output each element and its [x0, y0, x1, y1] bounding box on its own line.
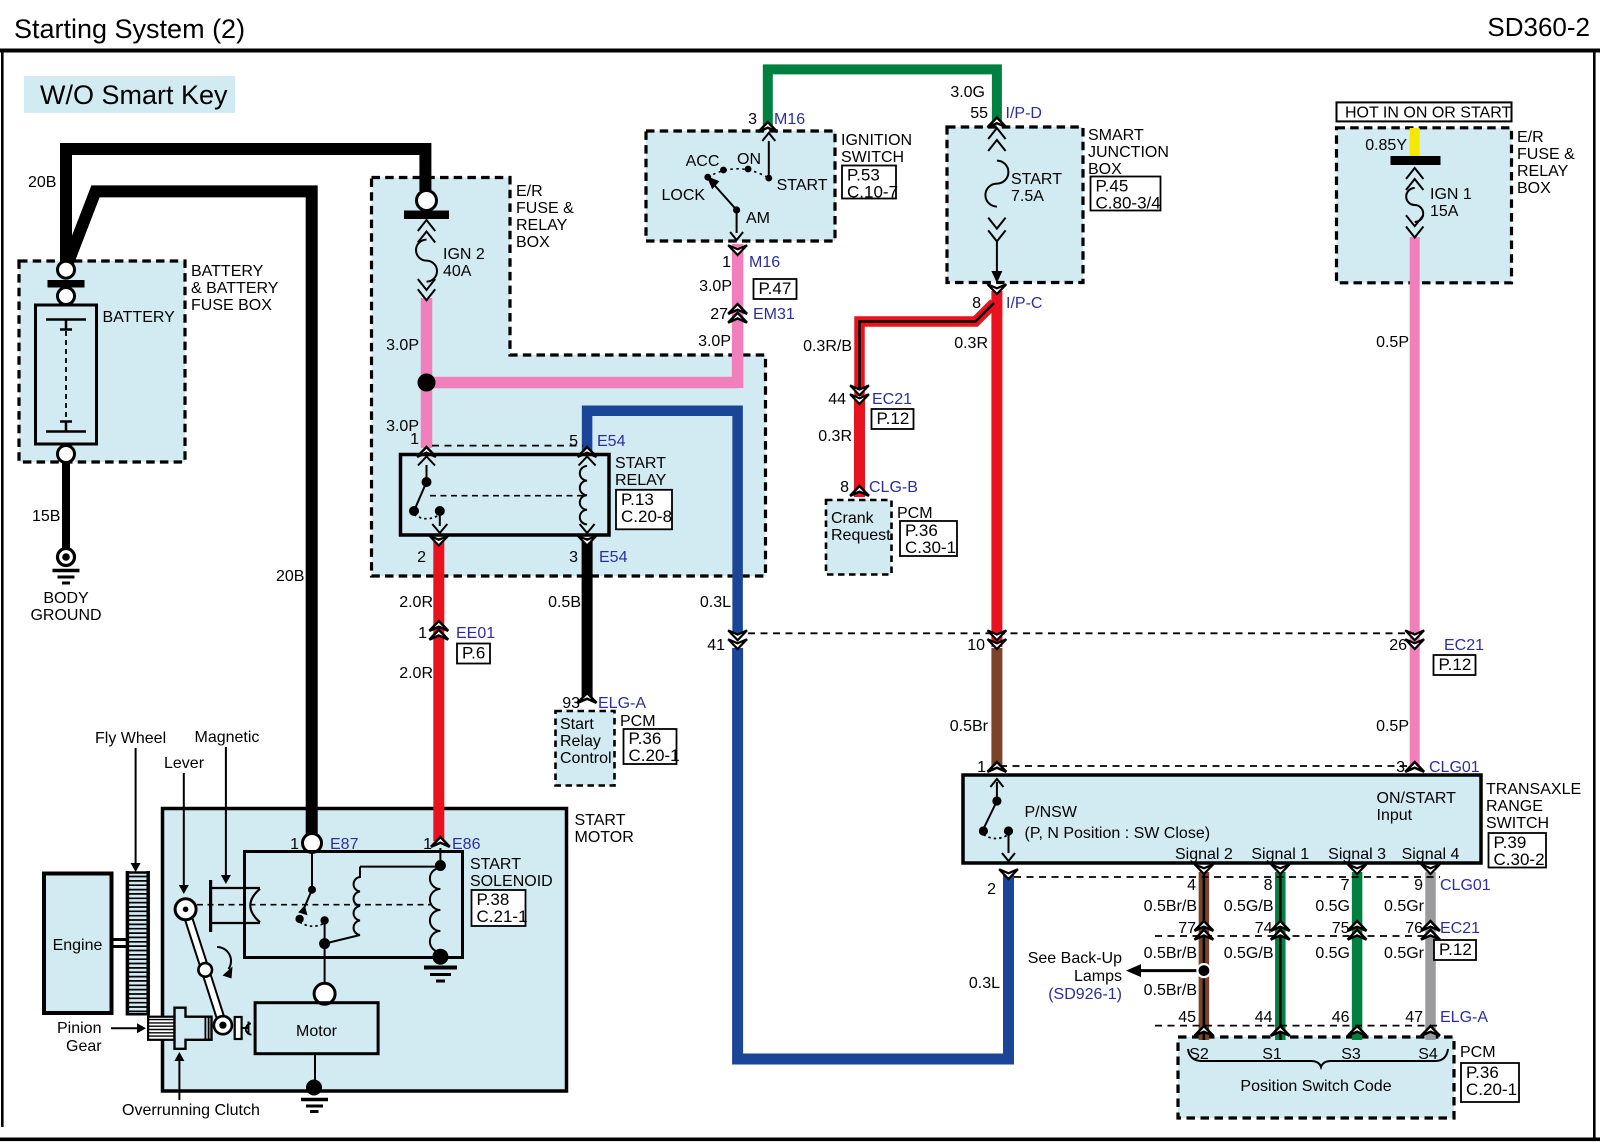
motor box: [255, 1003, 378, 1054]
BATTERY text: [103, 309, 176, 326]
svg-text:8: 8: [1264, 877, 1273, 894]
ignition contact START: [765, 175, 772, 182]
EC21 refbox b: [1434, 655, 1476, 675]
start motor box: [163, 809, 567, 1092]
svg-text:1: 1: [722, 254, 731, 271]
svg-text:2: 2: [417, 549, 426, 566]
svg-text:45: 45: [1178, 1009, 1196, 1026]
label 0.3L b: [969, 975, 1000, 992]
ignition switch detent arc: [708, 169, 769, 178]
ignition contact AM: [733, 206, 740, 213]
Position Switch Code label: [1240, 1078, 1391, 1095]
svg-text:SMART: SMART: [1088, 127, 1144, 144]
svg-text:SD360-2: SD360-2: [1487, 12, 1590, 42]
svg-text:RELAY: RELAY: [1517, 163, 1569, 180]
battery terminal bar: [48, 280, 85, 288]
pin 3 E54 label: [569, 549, 627, 566]
svg-text:Pinion: Pinion: [57, 1020, 101, 1037]
svg-text:SOLENOID: SOLENOID: [470, 873, 553, 890]
start relay control PCM box: [556, 711, 615, 786]
fuse START 7.5A label: [1011, 171, 1062, 205]
svg-text:Request: Request: [831, 527, 891, 544]
wire 0.5G signal 3: [1352, 872, 1363, 1040]
svg-text:3.0P: 3.0P: [698, 333, 731, 350]
svg-text:Crank: Crank: [831, 510, 875, 527]
connector chevron relay pin1: [417, 447, 436, 457]
svg-text:0.5Br/B: 0.5Br/B: [1144, 982, 1197, 999]
pin 5 E54 label: [569, 433, 625, 450]
svg-text:SWITCH: SWITCH: [841, 149, 904, 166]
wire 3.0P from ignition switch M16: [732, 244, 744, 388]
wire 0.3R/B branch: [860, 303, 995, 396]
E/R fuse relay box label: [516, 183, 574, 251]
label 20B top: [28, 174, 56, 191]
svg-text:PCM: PCM: [897, 505, 933, 522]
svg-text:Position Switch Code: Position Switch Code: [1240, 1078, 1391, 1095]
svg-text:BOX: BOX: [1088, 161, 1122, 178]
label 0.5Br/B row3: [1144, 982, 1197, 999]
svg-text:0.5Br: 0.5Br: [950, 718, 989, 735]
svg-text:M16: M16: [774, 111, 805, 128]
Overrunning Clutch label+arrow: [122, 1052, 260, 1119]
start relay control text: [560, 716, 612, 767]
svg-text:3.0G: 3.0G: [950, 84, 985, 101]
svg-text:Input: Input: [1377, 807, 1413, 824]
START MOTOR label: [575, 812, 634, 846]
svg-text:0.3R: 0.3R: [954, 335, 988, 352]
svg-text:2.0R: 2.0R: [399, 665, 433, 682]
svg-text:0.85Y: 0.85Y: [1365, 137, 1407, 154]
EC21 refbox c: [1434, 940, 1476, 960]
svg-text:0.3R/B: 0.3R/B: [803, 338, 852, 355]
connector I/P-D 55: [970, 105, 1042, 127]
W/O Smart Key label: [24, 76, 235, 113]
svg-text:P.12: P.12: [877, 409, 910, 428]
svg-text:& BATTERY: & BATTERY: [191, 280, 279, 297]
E/R fuse & relay box (left) outline: [372, 178, 766, 577]
see back-up lamps label: [1028, 950, 1122, 1003]
fly wheel gear: [127, 871, 148, 1016]
svg-text:27: 27: [710, 306, 728, 323]
svg-text:46: 46: [1332, 1009, 1350, 1026]
BODY GROUND text: [30, 590, 101, 624]
connector EC21 75: [1332, 920, 1367, 940]
wire 20B battery to E/R fuse box: [66, 149, 425, 272]
svg-text:Lever: Lever: [164, 755, 205, 772]
magnetic plunger fork: [210, 880, 261, 932]
wire 3.0P fuse IGN2 down: [421, 298, 433, 383]
svg-text:Lamps: Lamps: [1074, 968, 1122, 985]
svg-text:START: START: [777, 177, 828, 194]
svg-text:Signal 4: Signal 4: [1402, 846, 1460, 863]
svg-text:0.5G/B: 0.5G/B: [1224, 945, 1274, 962]
svg-text:C.20-1: C.20-1: [1466, 1080, 1517, 1099]
svg-text:ELG-A: ELG-A: [1440, 1009, 1488, 1026]
svg-text:BATTERY: BATTERY: [103, 309, 176, 326]
svg-text:Start: Start: [560, 716, 594, 733]
label LOCK: [662, 187, 706, 204]
page code SD360-2: [1487, 12, 1590, 42]
fuse IGN2 bar: [404, 211, 449, 220]
svg-text:TRANSAXLE: TRANSAXLE: [1486, 781, 1581, 798]
connector transaxle pin1: [977, 759, 1006, 776]
svg-text:3: 3: [569, 549, 578, 566]
fuse IGN2 symbol: [416, 220, 437, 300]
connector EC21 44: [828, 385, 912, 408]
lever: [175, 899, 232, 1034]
svg-text:GROUND: GROUND: [30, 607, 101, 624]
label 2.0R a: [399, 594, 433, 611]
svg-text:FUSE BOX: FUSE BOX: [191, 297, 272, 314]
svg-text:0.5P: 0.5P: [1376, 334, 1409, 351]
svg-text:EC21: EC21: [1444, 637, 1484, 654]
ignition line AM down: [730, 210, 743, 240]
battery center dashed: [65, 331, 67, 420]
motor ground: [301, 1054, 328, 1112]
wire 20B battery to start motor: [64, 191, 312, 837]
overrunning clutch symbol: [175, 1008, 212, 1049]
ON/START Input label: [1377, 790, 1457, 824]
svg-text:START: START: [615, 455, 666, 472]
wire 0.5Gr signal 4: [1425, 872, 1436, 1040]
EE01 refbox: [457, 644, 490, 664]
svg-text:8: 8: [972, 295, 981, 312]
svg-text:3: 3: [1396, 759, 1405, 776]
svg-text:P.6: P.6: [462, 644, 485, 663]
PCM refbox (bottom): [1461, 1063, 1519, 1102]
svg-text:EM31: EM31: [753, 306, 795, 323]
svg-text:C.21-1: C.21-1: [477, 907, 528, 926]
svg-text:IGN 1: IGN 1: [1430, 186, 1472, 203]
connector chevron E54 pin5: [578, 447, 597, 457]
connector ELG-A 45: [1178, 1009, 1213, 1036]
connector M16 pin3: [748, 111, 805, 132]
svg-text:PCM: PCM: [1460, 1044, 1496, 1061]
labels 0.5 colors row1: [1144, 898, 1425, 915]
connector signal4 pin9: [1414, 864, 1491, 894]
wire 0.5G/B signal 1: [1275, 872, 1286, 1040]
svg-text:BODY: BODY: [43, 590, 89, 607]
svg-text:AM: AM: [746, 210, 770, 227]
svg-text:MOTOR: MOTOR: [575, 829, 634, 846]
battery label block: [191, 263, 279, 314]
battery & battery fuse box outline: [19, 261, 185, 462]
svg-text:RELAY: RELAY: [615, 472, 667, 489]
wire 3.0G green: [768, 69, 997, 127]
svg-text:55: 55: [970, 105, 988, 122]
svg-text:41: 41: [707, 637, 725, 654]
battery symbol box: [36, 305, 97, 444]
P/NSW label: [1025, 804, 1211, 842]
ignition switch refbox: [842, 166, 898, 202]
solenoid coil A: [325, 867, 441, 944]
svg-text:BOX: BOX: [1517, 180, 1551, 197]
connector ELG-A 44: [1255, 1009, 1290, 1036]
svg-text:I/P-C: I/P-C: [1006, 295, 1042, 312]
pin 2 start relay: [417, 549, 426, 566]
start relay actuation dashed: [430, 495, 583, 497]
Fly Wheel label+arrow: [95, 730, 166, 872]
svg-text:Signal 2: Signal 2: [1175, 846, 1233, 863]
PCM label (crank request): [897, 505, 933, 522]
fuse IGN1 label: [1430, 186, 1472, 220]
label 3.0P b: [386, 418, 419, 435]
solenoid actuation dashed: [197, 904, 431, 906]
svg-text:1: 1: [418, 625, 427, 642]
svg-text:P.47: P.47: [759, 279, 792, 298]
wire 3.0P junction to start relay pin 1: [421, 383, 433, 449]
connector EC21 76: [1405, 920, 1480, 940]
svg-text:20B: 20B: [276, 568, 304, 585]
label 0.5B: [548, 594, 581, 611]
smart junction box label: [1088, 127, 1169, 178]
junction dot 3.0P: [418, 374, 436, 392]
svg-text:Magnetic: Magnetic: [195, 729, 260, 746]
ignition switch box outline: [646, 131, 835, 241]
P.47 refbox: [754, 279, 797, 299]
svg-text:Motor: Motor: [296, 1023, 338, 1040]
svg-text:3.0P: 3.0P: [699, 278, 732, 295]
svg-text:C.20-8: C.20-8: [621, 507, 672, 526]
bottom page border: [0, 1138, 1600, 1142]
svg-text:W/O Smart Key: W/O Smart Key: [40, 80, 228, 110]
svg-text:E/R: E/R: [1517, 129, 1544, 146]
svg-text:HOT IN ON OR START: HOT IN ON OR START: [1345, 105, 1511, 122]
svg-text:7.5A: 7.5A: [1011, 188, 1044, 205]
svg-text:1: 1: [977, 759, 986, 776]
svg-text:JUNCTION: JUNCTION: [1088, 144, 1169, 161]
start relay refbox: [616, 490, 672, 530]
E/R fuse & relay box (right) outline: [1337, 128, 1512, 283]
connector EC21 26: [1389, 630, 1484, 654]
svg-text:0.5G: 0.5G: [1315, 898, 1350, 915]
svg-text:5: 5: [569, 433, 578, 450]
svg-text:Relay: Relay: [560, 733, 601, 750]
connector signal2 pin4: [1187, 864, 1213, 894]
connector E87: [290, 834, 358, 854]
svg-text:EC21: EC21: [1440, 920, 1480, 937]
solenoid switch: [295, 852, 330, 949]
svg-text:0.5G: 0.5G: [1315, 945, 1350, 962]
start solenoid refbox: [472, 890, 528, 926]
Magnetic label+arrow: [195, 729, 260, 884]
connector row CLG01 signals: [1014, 876, 1440, 878]
PCM box (position switch): [1178, 1037, 1454, 1118]
PCM S pin labels: [1189, 1046, 1438, 1063]
label 0.3L a: [700, 594, 731, 611]
svg-text:(SD926-1): (SD926-1): [1048, 986, 1122, 1003]
labels 0.5 colors row2: [1144, 945, 1425, 962]
svg-text:FUSE &: FUSE &: [1517, 146, 1575, 163]
start relay switch: [409, 457, 447, 534]
label 15B: [32, 508, 60, 525]
solenoid coil B: [430, 848, 446, 952]
svg-text:P/NSW: P/NSW: [1025, 804, 1078, 821]
svg-text:E/R: E/R: [516, 183, 543, 200]
connector ELG-A 46: [1332, 1009, 1367, 1036]
shaft coupling: [235, 1017, 252, 1039]
engine box: [44, 874, 112, 1014]
motor connector ring: [314, 944, 335, 1005]
svg-text:(P, N Position : SW Close): (P, N Position : SW Close): [1025, 825, 1211, 842]
battery terminal ring top: [58, 261, 75, 278]
svg-text:ACC: ACC: [686, 153, 720, 170]
svg-text:1: 1: [410, 431, 419, 448]
connector 10: [967, 630, 1006, 654]
svg-text:2: 2: [987, 881, 996, 898]
connector row 41/10/26: [748, 632, 1414, 634]
smart junction refbox: [1091, 177, 1161, 213]
wire 0.5Br pin10 to transaxle pin1: [991, 648, 1002, 766]
connector transaxle pin2: [987, 869, 1018, 898]
svg-text:FUSE &: FUSE &: [516, 200, 574, 217]
svg-text:C.80-3/4: C.80-3/4: [1096, 194, 1161, 213]
ignition contact ON: [745, 166, 752, 173]
connector signal1 pin8: [1264, 864, 1290, 894]
svg-text:0.3L: 0.3L: [969, 975, 1000, 992]
svg-text:START: START: [575, 812, 626, 829]
svg-text:4: 4: [1187, 877, 1196, 894]
svg-text:RELAY: RELAY: [516, 217, 568, 234]
svg-text:ELG-A: ELG-A: [598, 695, 646, 712]
wire 3.0P horizontal: [427, 377, 738, 389]
ignition line START up: [762, 133, 775, 178]
connector ELG-A 93: [562, 693, 646, 712]
svg-text:Engine: Engine: [53, 937, 103, 954]
svg-text:EE01: EE01: [456, 625, 495, 642]
right page border: [1593, 52, 1596, 1138]
position switch brace: [1188, 1049, 1448, 1067]
connector E86: [423, 836, 480, 853]
svg-text:CLG01: CLG01: [1440, 877, 1491, 894]
svg-text:Fly Wheel: Fly Wheel: [95, 730, 166, 747]
svg-text:I/P-D: I/P-D: [1006, 105, 1042, 122]
connector row transaxle pin1 / CLG01-3: [1000, 765, 1412, 767]
start relay box: [401, 455, 610, 536]
svg-text:P.12: P.12: [1439, 940, 1472, 959]
connector chevron relay pin2: [429, 536, 448, 546]
label 0.85Y: [1365, 137, 1407, 154]
svg-text:26: 26: [1389, 637, 1407, 654]
svg-text:76: 76: [1405, 920, 1423, 937]
svg-text:RANGE: RANGE: [1486, 798, 1543, 815]
svg-text:0.5B: 0.5B: [548, 594, 581, 611]
svg-text:0.3R: 0.3R: [818, 428, 852, 445]
svg-text:0.3L: 0.3L: [700, 594, 731, 611]
label 0.5P a: [1376, 334, 1409, 351]
connector EC21 77: [1178, 920, 1213, 940]
connector signal3 pin7: [1341, 864, 1367, 894]
engine shaft: [112, 940, 128, 947]
lever rotation arrow: [217, 947, 233, 979]
svg-text:ON: ON: [737, 151, 761, 168]
svg-text:0.5Gr: 0.5Gr: [1384, 945, 1425, 962]
svg-text:PCM: PCM: [620, 713, 656, 730]
page title: [14, 14, 245, 44]
svg-text:BOX: BOX: [516, 234, 550, 251]
wire 0.3L start relay pin5 up-over: [587, 411, 738, 635]
label ACC: [686, 153, 720, 170]
svg-text:IGN 2: IGN 2: [443, 246, 485, 263]
svg-text:44: 44: [828, 391, 846, 408]
PCM label (bottom): [1460, 1044, 1496, 1061]
connector CLG-B 8: [840, 479, 918, 496]
start solenoid box: [245, 852, 463, 958]
fuse IGN1 symbol: [1406, 168, 1423, 238]
Motor label: [296, 1023, 338, 1040]
P/NSW switch: [979, 779, 1015, 861]
crank request PCM box: [826, 500, 892, 575]
connector row ELG-A signals: [1155, 1025, 1437, 1027]
svg-text:75: 75: [1332, 920, 1350, 937]
svg-text:15A: 15A: [1430, 203, 1459, 220]
svg-text:20B: 20B: [28, 174, 56, 191]
svg-text:40A: 40A: [443, 263, 472, 280]
svg-text:0.5Gr: 0.5Gr: [1384, 898, 1425, 915]
svg-text:15B: 15B: [32, 508, 60, 525]
connector I/P-C 8: [972, 284, 1042, 312]
connector EM31 27: [710, 304, 795, 323]
svg-text:See Back-Up: See Back-Up: [1028, 950, 1122, 967]
fuse IGN2 label: [443, 246, 485, 280]
svg-text:IGNITION: IGNITION: [841, 132, 912, 149]
svg-text:CLG01: CLG01: [1429, 759, 1480, 776]
svg-text:Control: Control: [560, 750, 612, 767]
Lever label+arrow: [164, 755, 205, 894]
body ground symbol: [53, 549, 80, 584]
connector EC21 74: [1255, 920, 1290, 940]
Engine label: [53, 937, 103, 954]
title rule: [0, 49, 1600, 53]
pinion gear symbol: [148, 1017, 174, 1040]
svg-text:74: 74: [1255, 920, 1273, 937]
label 0.3R b: [818, 428, 852, 445]
svg-text:CLG-B: CLG-B: [869, 479, 918, 496]
battery bottom ring: [58, 446, 75, 463]
connector CLG01 3: [1396, 759, 1480, 776]
connector ELG-A 47: [1405, 1009, 1488, 1036]
wire 0.3L down and to transaxle switch pin2: [738, 648, 1009, 1059]
svg-text:8: 8: [840, 479, 849, 496]
label ON: [737, 151, 761, 168]
fuse IGN1 bar: [1391, 156, 1441, 165]
svg-text:10: 10: [967, 637, 985, 654]
pin 1 start relay: [410, 431, 419, 448]
svg-text:2.0R: 2.0R: [399, 594, 433, 611]
transaxle range switch label: [1486, 781, 1581, 832]
HOT IN ON OR START box: [1337, 102, 1512, 121]
svg-text:C.10-7: C.10-7: [847, 183, 898, 202]
svg-text:Gear: Gear: [66, 1038, 102, 1055]
svg-text:START: START: [1011, 171, 1062, 188]
svg-text:E54: E54: [597, 433, 626, 450]
see back-up arrow: [1126, 964, 1204, 977]
left page border: [1, 52, 4, 1127]
connector M16 pin1: [722, 245, 780, 271]
svg-text:C.30-2: C.30-2: [1494, 850, 1545, 869]
smart junction box outline: [947, 127, 1083, 283]
svg-text:0.5G/B: 0.5G/B: [1224, 898, 1274, 915]
ignition switch label: [841, 132, 912, 166]
svg-text:9: 9: [1414, 877, 1423, 894]
svg-text:Signal 3: Signal 3: [1328, 846, 1386, 863]
label 0.3R/B: [803, 338, 852, 355]
E/R fuse relay right label: [1517, 129, 1575, 197]
battery cell top: [46, 320, 86, 331]
ignition contact LOCK: [704, 174, 711, 181]
wire 0.3R I/P-C down to pin 10: [991, 291, 1002, 647]
wire 0.85Y: [1410, 128, 1420, 157]
